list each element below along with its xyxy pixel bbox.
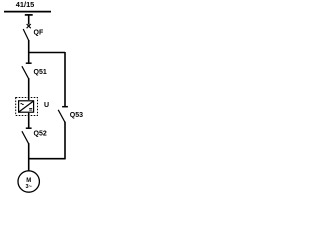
wire bottom branch rejoin horizontal [29, 158, 65, 160]
converter U dashed enclosure [16, 98, 38, 116]
svg-text:Q51: Q51 [34, 69, 47, 76]
contact Q51 blade [22, 66, 29, 79]
node bus tap T-bar [25, 14, 33, 16]
contact Q52 fixed terminal tick [26, 127, 32, 129]
contact Q51 fixed terminal tick [26, 62, 32, 64]
wire branch to right at node [29, 52, 65, 54]
converter U inner box [19, 101, 34, 112]
svg-text:41/15: 41/15 [16, 0, 35, 9]
wire vertical Q51 to converter box [28, 78, 30, 100]
wire vertical breaker to Q51 [28, 40, 30, 63]
wire right branch vertical upper [64, 52, 66, 107]
svg-text:3~: 3~ [26, 184, 32, 190]
circuit breaker QF blade [23, 29, 29, 41]
converter U dc mark [29, 108, 32, 110]
svg-text:Q52: Q52 [34, 131, 47, 138]
circuit breaker QF contact cross [27, 24, 31, 28]
svg-text:M: M [26, 178, 31, 184]
contact Q52 blade [22, 131, 29, 144]
wire vertical Q52 to bottom node [28, 143, 30, 171]
converter U ac mark [21, 103, 24, 104]
contact Q53 blade [58, 110, 65, 123]
wire bus horizontal [4, 11, 51, 13]
svg-text:QF: QF [34, 30, 44, 37]
converter U diagonal [19, 101, 34, 112]
contact Q53 fixed terminal tick [62, 106, 68, 108]
wire right branch vertical lower [64, 122, 66, 160]
motor M circle [18, 171, 39, 192]
svg-text:U: U [44, 102, 49, 109]
svg-text:Q53: Q53 [70, 112, 83, 119]
wire vertical from tap to breaker [28, 15, 30, 25]
wire vertical converter to Q52 [28, 113, 30, 128]
